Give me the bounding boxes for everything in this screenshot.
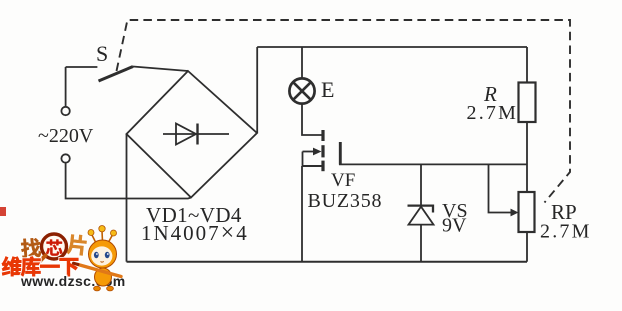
mascot mouth xyxy=(101,261,104,264)
wire top rail to lamp xyxy=(301,47,303,78)
svg-text:BUZ358: BUZ358 xyxy=(308,190,383,212)
wire R to RP xyxy=(526,122,528,192)
lamp E circle xyxy=(289,78,314,103)
wire lamp to drain xyxy=(302,104,322,135)
svg-text:2.7M: 2.7M xyxy=(540,221,592,243)
bridge diode triangle xyxy=(176,124,196,145)
watermark text 芯 xyxy=(46,240,62,256)
watermark text 维 xyxy=(2,257,22,277)
bridge diode symbol line xyxy=(163,133,229,135)
lamp E cross xyxy=(293,82,310,99)
zener VS triangle xyxy=(409,207,434,225)
wire source down to rail xyxy=(301,166,303,262)
RP wiper arrow head xyxy=(511,209,519,217)
wire terminal up xyxy=(65,67,67,107)
wire rail to R xyxy=(526,47,528,83)
wire bridge DC+ up xyxy=(256,47,258,133)
mascot head xyxy=(89,240,117,268)
svg-text:2.7M: 2.7M xyxy=(467,102,519,124)
MOSFET body arrow line xyxy=(303,151,314,153)
mascot body xyxy=(95,268,112,286)
mascot face xyxy=(91,246,112,265)
resistor R body xyxy=(519,83,536,123)
watermark red seal fragment xyxy=(0,207,6,216)
wire RP to rail xyxy=(526,232,528,262)
AC terminal lower xyxy=(61,154,69,162)
magnifier handle xyxy=(33,256,46,269)
wire switch to bridge top xyxy=(133,67,188,72)
svg-text:1N4007×4: 1N4007×4 xyxy=(141,220,249,246)
MOSFET body arrow head xyxy=(313,148,322,156)
svg-text:S: S xyxy=(96,41,108,66)
watermark magnifier glass xyxy=(42,234,67,259)
bottom rail xyxy=(127,261,528,263)
mascot antenna balls xyxy=(88,230,94,236)
zener VS cathode bar xyxy=(408,206,434,213)
mascot eyes xyxy=(94,252,99,258)
wire gate node to zener xyxy=(420,164,422,205)
MOSFET source lead xyxy=(303,165,322,167)
wire bridge DC- down xyxy=(126,134,128,262)
svg-text:VF: VF xyxy=(331,170,355,191)
svg-text:9V: 9V xyxy=(442,215,467,237)
watermark text 下 xyxy=(60,258,79,276)
mascot feet xyxy=(94,286,101,291)
MOSFET VF source bar xyxy=(321,161,324,172)
mascot pen xyxy=(78,265,121,277)
mechanical linkage dashed line xyxy=(117,20,571,203)
switch S wire left xyxy=(66,66,98,68)
top rail xyxy=(257,46,527,48)
MOSFET gate plate xyxy=(339,142,342,165)
mascot antennae xyxy=(92,231,114,243)
watermark text 库 xyxy=(21,257,41,277)
wire zener to rail xyxy=(420,225,422,262)
svg-text:~220V: ~220V xyxy=(38,125,94,147)
wire lower terminal to bridge bottom xyxy=(66,163,191,199)
gate wire to divider xyxy=(339,163,527,165)
MOSFET source/body junction vertical xyxy=(302,152,304,167)
AC terminal upper xyxy=(61,107,69,115)
switch S blade xyxy=(99,67,134,82)
watermark text 片 xyxy=(66,234,87,256)
MOSFET VF drain bar xyxy=(321,130,324,141)
watermark text 一 xyxy=(40,265,59,268)
watermark text 找 xyxy=(21,238,42,258)
bridge rectifier VD1~VD4 diamond xyxy=(127,71,258,198)
bridge diode cathode bar xyxy=(196,124,198,145)
potentiometer RP body xyxy=(519,192,535,232)
MOSFET VF body bar xyxy=(321,145,324,157)
svg-text:E: E xyxy=(321,77,334,102)
RP wiper wire xyxy=(489,164,512,212)
